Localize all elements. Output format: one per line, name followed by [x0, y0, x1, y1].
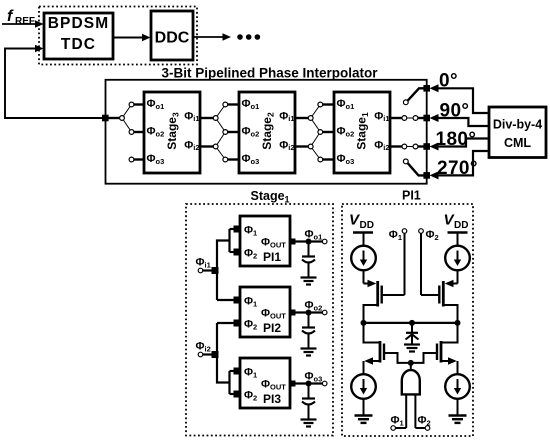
current source I1 (top left) — [351, 246, 376, 284]
dashed box around BPDSM TDC + DDC — [39, 7, 197, 65]
ground under I3 — [355, 416, 373, 423]
wire BPDSM TDC to DDC — [113, 34, 151, 42]
svg-text:Stage1: Stage1 — [251, 189, 290, 205]
svg-text:DDC: DDC — [155, 30, 190, 47]
node Phi1 top input — [389, 229, 407, 295]
block Stage2 — [239, 92, 295, 173]
svg-text:PI3: PI3 — [263, 392, 281, 406]
svg-text:Φ2: Φ2 — [426, 229, 439, 242]
svg-text:CML: CML — [504, 136, 531, 150]
transistor M3 (bottom left) — [364, 323, 410, 375]
block PI1 — [240, 216, 290, 266]
ground under C3 — [301, 420, 317, 427]
svg-text:Div-by-4: Div-by-4 — [493, 118, 542, 132]
svg-text:DD: DD — [360, 220, 374, 231]
block Stage3 — [144, 92, 200, 173]
AND gate input Phi2 (bottom) — [415, 394, 430, 430]
node AND gate output junction — [408, 360, 414, 366]
svg-text:270°: 270° — [437, 158, 478, 179]
node Phi_i1 input terminal — [196, 257, 219, 275]
wire PI1 output — [290, 229, 328, 245]
svg-text:PI1: PI1 — [402, 189, 421, 203]
capacitor C3 — [302, 384, 315, 419]
svg-text:TDC: TDC — [61, 36, 96, 53]
wire input to Stage3 switch pole — [106, 117, 121, 119]
wires Stage2 outputs — [295, 117, 309, 119]
capacitor C1 — [302, 242, 315, 277]
svg-text:3-Bit Pipelined Phase Interpol: 3-Bit Pipelined Phase Interpolator — [161, 66, 378, 81]
svg-text:BPDSM: BPDSM — [48, 15, 109, 32]
power VDD right — [444, 212, 469, 247]
capacitor C2 — [302, 313, 315, 348]
ellipsis dots — [237, 34, 260, 40]
ground under C2 — [301, 349, 317, 356]
wire 270 degree from CML — [430, 151, 490, 179]
svg-text:Φo1: Φo1 — [305, 229, 323, 242]
svg-text:180°: 180° — [436, 129, 477, 150]
power VDD left — [349, 212, 374, 247]
switch bank Stage2 to Stage1 — [308, 102, 334, 162]
wire Phi_i2 trunk to PI2 and PI3 — [217, 320, 241, 398]
svg-text:Φ1: Φ1 — [389, 229, 402, 242]
svg-text:DD: DD — [454, 220, 468, 231]
switch arm 0 degree row — [403, 88, 426, 104]
dashed box PI1 detail — [342, 204, 473, 436]
dashed box Stage1 detail — [186, 204, 333, 436]
transistor M1 (top left) — [364, 280, 405, 323]
wire fREF input arrow — [2, 20, 44, 28]
wire Phi_i1 trunk to PI1 and PI2 — [217, 226, 241, 304]
svg-text:PI2: PI2 — [263, 321, 281, 335]
switch bank into Stage3 — [120, 102, 144, 162]
svg-text:90°: 90° — [440, 101, 470, 122]
svg-text:0°: 0° — [439, 71, 458, 92]
block PI2 — [240, 287, 290, 337]
wires Stage1 outputs to phase-select switches — [390, 116, 427, 149]
transistor M4 (bottom right) — [412, 323, 458, 375]
AND gate U1 — [402, 363, 420, 395]
transistor M2 (top right) — [421, 280, 458, 323]
node Phi2 top input — [419, 229, 439, 295]
wire output rail — [361, 320, 461, 326]
big interpolator rectangle — [106, 80, 427, 184]
current source I3 (bottom left) — [351, 374, 376, 415]
svg-text:Φi2: Φi2 — [196, 341, 211, 354]
current source I4 (bottom right) — [445, 374, 470, 415]
node fREF label — [7, 8, 35, 27]
wire 180 degree from CML — [430, 139, 490, 151]
svg-text:PI1: PI1 — [263, 250, 281, 264]
svg-text:Stage2: Stage2 — [260, 112, 276, 150]
wire 0 degree from CML — [430, 84, 490, 113]
switch bank Stage3 to Stage2 — [213, 102, 239, 162]
ground under C1 — [301, 278, 317, 285]
block DDC — [151, 11, 193, 60]
wire feedback loop from PI input node to BPDSM TDC — [5, 45, 106, 118]
wire 90 degree from CML — [430, 114, 490, 126]
AND gate input Phi1 (bottom) — [391, 394, 407, 430]
svg-text:Φi1: Φi1 — [196, 257, 211, 270]
block Stage1 — [334, 92, 390, 173]
svg-text:REF: REF — [15, 16, 35, 27]
node Phi_i2 input terminal — [196, 341, 219, 359]
svg-text:Φ2: Φ2 — [418, 415, 431, 428]
switch arm 270 degree row — [403, 159, 426, 175]
current source I2 (top right) — [445, 246, 470, 284]
ground under I4 — [449, 416, 467, 423]
wire DDC output arrow — [193, 33, 231, 41]
svg-text:Φo2: Φo2 — [305, 300, 323, 313]
junction squares on right edge — [423, 85, 430, 179]
svg-text:Φ1: Φ1 — [391, 415, 404, 428]
junction on PI input (left edge of interpolator box) — [102, 115, 109, 122]
varactor capacitor to ground — [406, 323, 419, 344]
svg-text:Stage3: Stage3 — [165, 112, 181, 150]
svg-text:Stage1: Stage1 — [355, 112, 371, 150]
wires Stage3 outputs — [200, 117, 214, 119]
block PI3 — [240, 358, 290, 408]
block BPDSM TDC — [44, 13, 113, 59]
svg-text:f: f — [7, 8, 14, 25]
svg-text:Φo3: Φo3 — [305, 371, 323, 384]
block Div-by-4 CML — [489, 107, 546, 158]
wire PI2 output — [290, 300, 328, 316]
wire PI3 output — [290, 371, 328, 387]
ground under varactor — [404, 345, 420, 352]
